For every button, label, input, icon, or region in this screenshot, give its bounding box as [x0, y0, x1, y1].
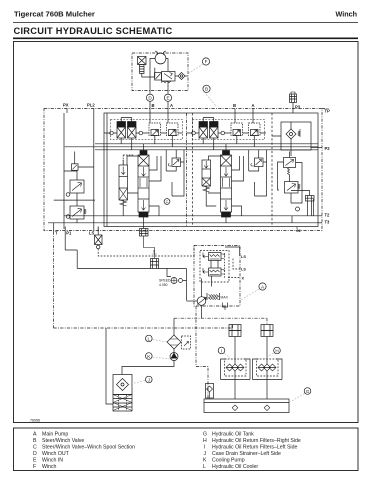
T3 port exit	[318, 222, 322, 224]
svg-text:A: A	[170, 103, 173, 108]
steer spool assembly	[202, 144, 267, 223]
section divider dashed right	[271, 113, 273, 227]
svg-text:SPEED: SPEED	[159, 279, 171, 283]
wires spool2	[209, 144, 244, 181]
leader I	[225, 353, 231, 358]
svg-text:C: C	[33, 444, 37, 450]
wire CB to check	[175, 75, 178, 77]
leader G	[290, 394, 305, 403]
relief valve RV4	[210, 122, 219, 128]
svg-text:J: J	[204, 451, 207, 457]
PR2 wires	[76, 199, 78, 223]
PR2 spring	[84, 209, 86, 214]
svg-text:Hydraulic Oil Return Filters–L: Hydraulic Oil Return Filters–Left Side	[212, 444, 297, 450]
tank return dash-dot left	[53, 232, 55, 329]
RV3 top stub	[203, 118, 214, 122]
pump outlet down	[201, 305, 203, 318]
node K circle	[146, 353, 153, 360]
svg-text:B: B	[205, 87, 208, 92]
svg-text:Main Pump: Main Pump	[42, 431, 68, 437]
P1 port stub	[64, 227, 66, 232]
leader H	[265, 353, 274, 359]
svg-text:I: I	[221, 348, 222, 353]
anti-cavitation check ACV3	[231, 123, 243, 136]
cooler top wire	[173, 318, 175, 335]
tank diffuser left	[232, 405, 238, 411]
RV side port circle left	[192, 131, 196, 135]
SP1 top cap	[140, 151, 147, 156]
case drain wire to strainer	[106, 328, 113, 404]
leader A	[241, 289, 260, 300]
node J circle	[146, 376, 153, 383]
right coupling fitting	[261, 325, 273, 331]
CP1 spring bottom	[120, 200, 127, 206]
pump inner dashed enclosure	[200, 251, 229, 283]
TP dash-dot stub	[322, 108, 329, 110]
main pump P1 circle	[197, 297, 206, 306]
relief valve RV2	[128, 122, 137, 128]
RV side port circle right	[139, 131, 143, 135]
P2 check diamond	[286, 129, 296, 139]
node L circle	[146, 335, 153, 342]
PV1 spring below	[288, 168, 290, 175]
drive shaft line	[159, 268, 187, 270]
leader J	[129, 381, 146, 385]
svg-text:I: I	[204, 444, 205, 450]
bus line 2	[104, 146, 318, 148]
svg-text:G: G	[203, 431, 207, 437]
bus line T3	[48, 222, 318, 224]
relief valve RV1	[117, 122, 126, 128]
svg-text:C2: C2	[296, 229, 301, 233]
annex lower wire	[54, 199, 95, 201]
port stub D line	[149, 101, 151, 123]
wire motor left port down	[150, 59, 155, 91]
left filter I outer box	[221, 359, 251, 380]
LS filter cartridge	[95, 235, 103, 245]
left coupling fitting	[229, 325, 241, 331]
bus line T2	[64, 215, 318, 217]
steer section relief pair	[186, 118, 266, 150]
valve body inner left line	[106, 113, 108, 227]
CP2 spring	[203, 186, 210, 192]
LS port stub 2 dashed	[233, 259, 240, 270]
svg-text:Winch: Winch	[336, 10, 358, 19]
svg-text:T3: T3	[325, 220, 331, 225]
port stub E line	[167, 101, 169, 123]
shaft vertical to couplings	[167, 269, 187, 281]
T2 port exit	[314, 199, 323, 216]
svg-text:Hydraulic Oil Tank: Hydraulic Oil Tank	[212, 431, 254, 437]
shaft wire to pump	[186, 269, 188, 301]
tank level gauge	[206, 384, 214, 399]
svg-text:E: E	[166, 95, 169, 100]
P2 check spring	[298, 131, 300, 136]
svg-text:K: K	[147, 354, 151, 359]
right filter elements	[259, 367, 277, 369]
svg-text:A: A	[261, 284, 265, 289]
oil cooler L diamond	[167, 335, 181, 349]
node B circle	[203, 85, 210, 92]
T2-T3 link	[291, 216, 293, 223]
winch F enclosure dash-dot box	[132, 53, 188, 91]
LC2 wires	[249, 150, 267, 196]
leader F	[189, 64, 204, 74]
tank diffuser right	[264, 405, 270, 411]
anti-cavitation check ACV1	[149, 123, 161, 136]
pilot relief PR2	[70, 206, 84, 219]
wire from bus into P2 block	[272, 136, 291, 156]
title thick rule	[13, 37, 358, 39]
section divider dash-dot	[186, 113, 188, 227]
strainer screen box	[113, 395, 132, 412]
suction dash-dot jog	[196, 367, 208, 400]
left annex of valve B	[54, 113, 104, 232]
svg-text:L: L	[148, 336, 151, 341]
right filter H outer box	[253, 359, 283, 380]
svg-text:P1: P1	[66, 231, 72, 236]
svg-text:K: K	[203, 457, 207, 463]
tank return dash-dot horizontal	[54, 327, 233, 329]
RV bottom wires	[203, 138, 214, 150]
svg-text:G: G	[306, 389, 310, 394]
node F circle	[202, 58, 209, 65]
svg-text:76956: 76956	[30, 419, 40, 423]
legend box	[14, 428, 359, 471]
suction dash-dot vertical	[195, 306, 197, 367]
bus line 3	[104, 149, 318, 151]
pump suction wire	[122, 361, 174, 375]
wire winch ports down	[150, 81, 168, 94]
left fitting drop	[232, 325, 234, 329]
regulator pilot dashes	[224, 253, 226, 279]
left filter elements	[227, 367, 245, 369]
main unloader valve UV1	[285, 182, 299, 194]
left filter I inner dashed	[225, 359, 247, 376]
priority valve PR1	[70, 180, 84, 193]
right fitting drop	[266, 318, 268, 324]
engine connection S box	[151, 259, 159, 269]
LS port stub 1	[225, 247, 240, 256]
svg-text:A: A	[33, 431, 37, 437]
node G circle	[304, 388, 311, 395]
RV1 top stub	[121, 118, 132, 122]
svg-text:C: C	[166, 199, 169, 204]
annex bus extensions	[65, 144, 104, 150]
svg-text:Steer/Winch Valve: Steer/Winch Valve	[42, 438, 84, 444]
node A circle	[259, 283, 266, 290]
svg-text:LS: LS	[241, 268, 246, 272]
right filter drop wire	[266, 337, 268, 356]
winch section relief pair	[104, 118, 183, 150]
winch spool assembly (C section)	[119, 144, 184, 236]
svg-text:LS: LS	[241, 255, 246, 259]
SP2 bottom cap	[222, 212, 231, 217]
pump shaft wire	[187, 300, 198, 302]
node D circle	[146, 94, 153, 101]
filters to tank wires	[235, 380, 267, 400]
X port stub	[228, 277, 240, 279]
cluster wires	[278, 152, 303, 204]
pump A dash-dot enclosure	[194, 246, 240, 307]
C2 drain port	[296, 227, 298, 230]
winch brake BR1	[138, 57, 147, 65]
anti-cavitation check ACV4	[249, 123, 261, 136]
node E circle	[164, 94, 171, 101]
annex fitting link	[75, 152, 94, 168]
spool valve SP1 body	[138, 155, 149, 212]
node I circle	[218, 347, 225, 354]
annex fitting	[72, 164, 79, 171]
RV side port circle left	[110, 131, 114, 135]
cooler to pump wire	[173, 349, 175, 353]
valve body solid border	[104, 113, 318, 227]
regulator interconnect wires	[211, 261, 218, 287]
shaft coupling circles	[171, 278, 177, 284]
ACV wires down	[148, 133, 183, 147]
bus line 1	[104, 143, 318, 145]
port stub steer A	[252, 109, 254, 124]
svg-text:TP: TP	[325, 109, 331, 114]
node C circle	[164, 199, 170, 205]
svg-text:F: F	[205, 59, 208, 64]
svg-text:Tigercat 760B Mulcher: Tigercat 760B Mulcher	[14, 10, 95, 19]
svg-text:A: A	[252, 103, 255, 108]
SP2 top cap	[223, 151, 230, 156]
svg-text:Winch: Winch	[42, 464, 57, 470]
svg-text:Cooling Pump: Cooling Pump	[212, 457, 245, 463]
svg-text:F: F	[33, 464, 36, 470]
SP1 end fitting	[140, 229, 149, 237]
check valve diamond CV1	[178, 73, 185, 80]
load check LC1	[172, 158, 181, 167]
spool valve SP2 body	[221, 155, 232, 212]
SP1 cell crossing	[138, 155, 149, 166]
MAX adjuster spring	[209, 295, 219, 300]
T port stub	[53, 223, 55, 232]
CP1 pilot dashes	[123, 155, 133, 165]
wire spool right to section edge	[149, 206, 159, 216]
port stub PL2	[93, 109, 95, 232]
LS signal wire dashed	[98, 247, 194, 257]
svg-text:B: B	[33, 438, 37, 444]
cooling pump K circle	[170, 353, 178, 361]
svg-text:Steer/Winch Valve–Winch Spool: Steer/Winch Valve–Winch Spool Section	[42, 444, 135, 450]
svg-text:L: L	[203, 464, 206, 470]
RV bottom wires	[121, 138, 132, 150]
unloader pilot valve PV1	[284, 158, 296, 168]
LS port stub	[97, 227, 99, 232]
svg-text:J: J	[148, 377, 150, 382]
svg-text:MAX: MAX	[221, 296, 229, 300]
winch motor M1	[155, 53, 166, 64]
tank inner line	[204, 402, 289, 404]
svg-text:P2: P2	[325, 146, 331, 151]
leader L	[153, 340, 167, 343]
compensator CP2 body	[202, 160, 211, 186]
svg-text:PX: PX	[63, 103, 69, 108]
svg-text:CIRCUIT HYDRAULIC SCHEMATIC: CIRCUIT HYDRAULIC SCHEMATIC	[14, 26, 173, 36]
right relief cluster	[278, 152, 315, 216]
pump regulator REG2	[209, 268, 222, 276]
strainer check diamond	[117, 379, 129, 391]
SP2 cell crossing	[221, 155, 232, 166]
node H circle	[274, 347, 281, 354]
RV connecting wires	[186, 132, 230, 134]
section divider dashed	[192, 113, 194, 227]
wire motor right port down	[166, 59, 168, 72]
drain fitting to T2	[306, 196, 315, 202]
svg-text:T2: T2	[325, 213, 331, 218]
SP1 bottom cap	[139, 212, 148, 217]
svg-text:D: D	[148, 95, 152, 100]
annex feed wire vertical	[63, 113, 65, 229]
RV connecting wires	[104, 132, 148, 134]
svg-text:H: H	[203, 438, 207, 444]
port stub PX	[66, 109, 68, 114]
P1 supply wire from pump	[65, 232, 150, 269]
CB1 spring	[161, 81, 171, 83]
cooler bypass box dashed	[182, 336, 191, 349]
ACV wires down	[230, 133, 267, 147]
svg-text:B: B	[233, 103, 236, 108]
svg-text:Hydraulic Oil Cooler: Hydraulic Oil Cooler	[212, 464, 258, 470]
right side of valve: P3 and check	[272, 92, 329, 156]
relief valve RV3	[199, 122, 208, 128]
left filter drop wire	[234, 337, 236, 356]
compensator CP1 body	[119, 165, 128, 200]
strainer upper box	[113, 375, 132, 395]
gauge port P3 fitting	[290, 94, 297, 103]
pump regulator REG1	[209, 253, 222, 261]
svg-text:S: S	[153, 250, 156, 254]
P2 check valve block	[281, 122, 311, 150]
cooler feed dash-dot	[174, 317, 267, 319]
svg-text:H: H	[275, 348, 278, 353]
svg-text:4.050: 4.050	[159, 283, 168, 287]
UV1 side spring	[298, 184, 300, 189]
svg-text:Winch IN: Winch IN	[42, 457, 63, 463]
P2 exit wire	[311, 147, 322, 149]
svg-text:B: B	[152, 103, 155, 108]
header rule	[13, 22, 358, 24]
tank body	[204, 399, 289, 413]
svg-text:Winch OUT: Winch OUT	[42, 451, 70, 457]
CB1 pilot box	[155, 73, 162, 81]
port stub steer B	[234, 109, 236, 124]
svg-text:X: X	[242, 277, 245, 281]
schematic frame	[14, 42, 359, 423]
svg-text:Case Drain Strainer–Left Side: Case Drain Strainer–Left Side	[212, 451, 281, 457]
leader B	[204, 92, 215, 106]
wire brake to motor	[142, 68, 155, 77]
svg-text:PL2: PL2	[87, 103, 95, 108]
pump case drain symbol	[223, 303, 228, 311]
svg-text:Hydraulic Oil Return Filters–R: Hydraulic Oil Return Filters–Right Side	[212, 438, 301, 444]
P3 stub down	[292, 103, 294, 114]
PR1 wires	[64, 171, 77, 199]
LC1 wires	[166, 150, 184, 196]
right filter H inner dashed	[257, 359, 279, 376]
winch section dashed enclosure	[111, 120, 183, 140]
leader K	[153, 357, 170, 359]
steer section dashed enclosure	[193, 120, 265, 140]
svg-text:D: D	[33, 451, 37, 457]
load check LC2	[255, 158, 264, 167]
svg-text:E: E	[33, 457, 37, 463]
wires spool to buses	[127, 144, 144, 165]
anti-cavitation check ACV2	[167, 123, 179, 136]
valve B outer dash-dot boundary	[44, 109, 322, 231]
counterbalance valve CB1	[162, 72, 176, 82]
pump pressure wire up	[201, 279, 203, 297]
RV side port circle right	[221, 131, 225, 135]
svg-text:T: T	[55, 231, 58, 236]
